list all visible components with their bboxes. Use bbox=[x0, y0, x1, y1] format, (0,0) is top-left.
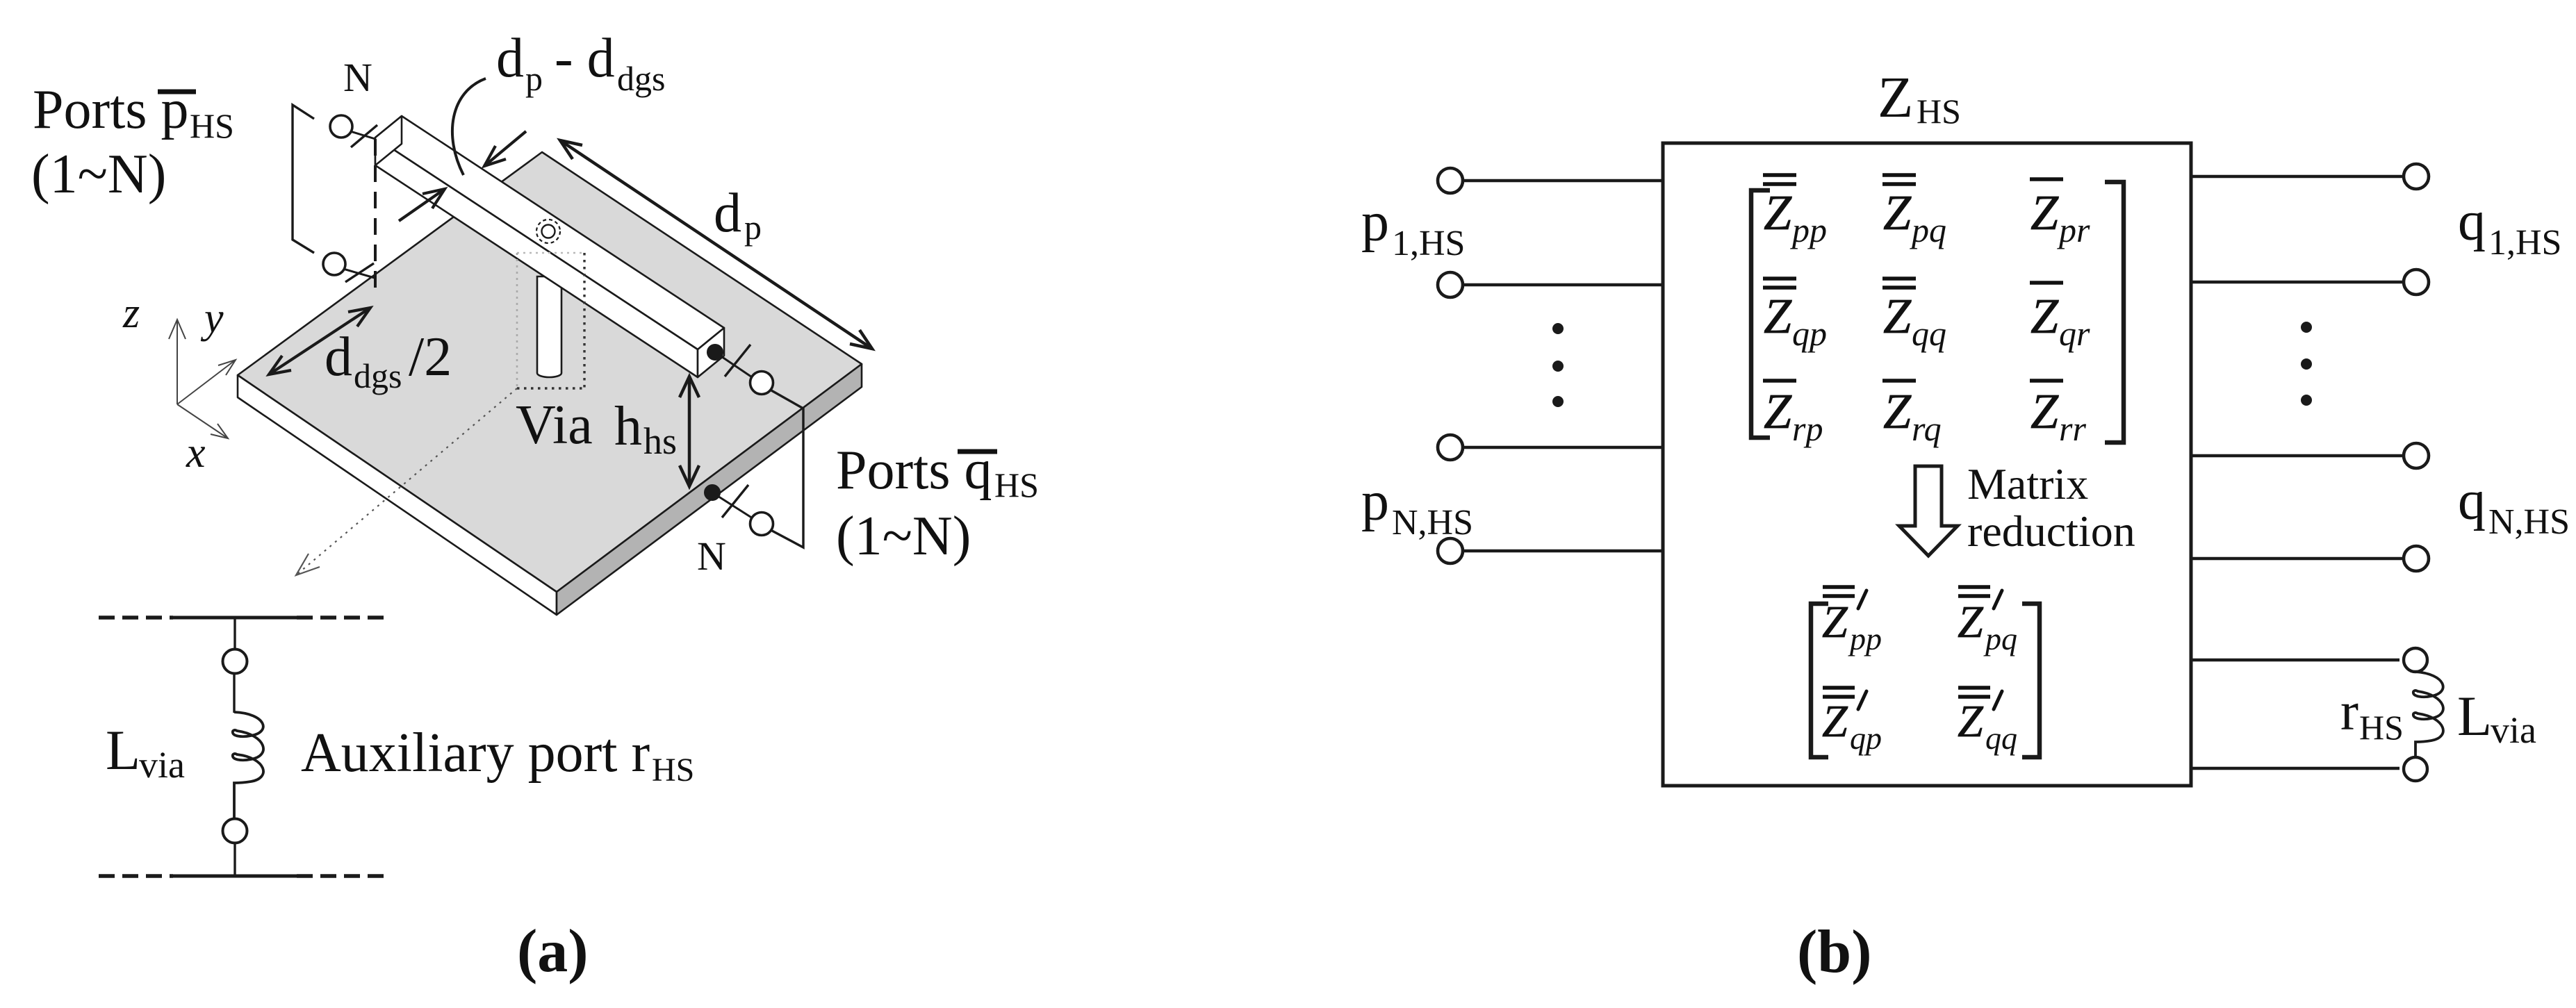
network box ZHS bbox=[1663, 143, 2191, 786]
svg-text:d: d bbox=[714, 183, 741, 244]
svg-text:Z: Z bbox=[1764, 288, 1792, 344]
wire p1a bbox=[1463, 179, 1663, 183]
label ZHS bbox=[1878, 65, 1961, 131]
dots left bbox=[1552, 323, 1564, 407]
svg-text:d: d bbox=[325, 327, 352, 388]
svg-text:d: d bbox=[496, 28, 524, 89]
wire p1b bbox=[1463, 283, 1663, 287]
svg-text:Z: Z bbox=[1883, 185, 1912, 240]
svg-text:Auxiliary port r: Auxiliary port r bbox=[301, 722, 650, 784]
svg-text:rq: rq bbox=[1912, 409, 1942, 448]
svg-text:y: y bbox=[200, 295, 224, 342]
port p circle 1 bbox=[330, 115, 377, 147]
dashed projection line at strip left end bbox=[374, 139, 377, 288]
wire pNa bbox=[1463, 446, 1663, 449]
curved leader for dp-ddgs bbox=[452, 79, 486, 175]
Z'pp bbox=[1822, 587, 1882, 656]
wire qNa bbox=[2191, 454, 2404, 458]
ports p bracket bbox=[293, 105, 314, 253]
wire qNb bbox=[2191, 557, 2404, 561]
aux port bottom circle bbox=[223, 819, 247, 843]
label dp - ddgs bbox=[496, 28, 665, 98]
svg-text:qr: qr bbox=[2059, 314, 2090, 353]
svg-text:h: h bbox=[614, 396, 642, 457]
terminal qNa bbox=[2404, 443, 2429, 468]
svg-text:pq: pq bbox=[1910, 210, 1946, 249]
svg-text:HS: HS bbox=[2359, 708, 2404, 747]
svg-text:Z: Z bbox=[1822, 696, 1848, 747]
wire port to inductor bbox=[233, 674, 235, 713]
label q1,HS bbox=[2458, 191, 2561, 263]
label L_via (panel a) bbox=[106, 718, 185, 786]
label Ports pHS bbox=[31, 79, 234, 205]
arrow onto strip (down-left) bbox=[484, 131, 526, 166]
aux port top circle bbox=[223, 650, 247, 674]
svg-text:Z: Z bbox=[1764, 185, 1792, 240]
terminal q1a bbox=[2404, 164, 2429, 189]
Zpq bbox=[1882, 175, 1946, 249]
terminal qNb bbox=[2404, 546, 2429, 571]
label p1,HS bbox=[1361, 192, 1465, 263]
auxiliary port projection dash-dot arrow bbox=[296, 388, 517, 575]
port q dot 1 (on strip end) bbox=[707, 345, 761, 383]
svg-text:pr: pr bbox=[2057, 210, 2090, 249]
wire rHS top bbox=[2191, 659, 2399, 662]
label pN,HS bbox=[1361, 471, 1473, 543]
svg-text:p: p bbox=[744, 208, 762, 247]
terminal p1a bbox=[1438, 168, 1463, 193]
wire pNb bbox=[1463, 550, 1663, 553]
svg-text:N,HS: N,HS bbox=[1392, 503, 1473, 543]
wire q1a bbox=[2191, 175, 2404, 179]
via bbox=[537, 276, 561, 377]
terminal rHS top bbox=[2404, 648, 2427, 672]
Z'pq bbox=[1958, 587, 2017, 656]
wire q1b bbox=[2191, 281, 2404, 284]
Zrp bbox=[1763, 381, 1823, 448]
svg-text:p: p bbox=[525, 59, 543, 98]
svg-text:(1~N): (1~N) bbox=[31, 144, 166, 205]
svg-text:L: L bbox=[2457, 684, 2492, 747]
svg-text:Z: Z bbox=[1958, 597, 1984, 647]
svg-text:qp: qp bbox=[1792, 314, 1827, 353]
svg-text:Z: Z bbox=[1958, 696, 1984, 747]
dimension arrow dp bbox=[560, 140, 872, 349]
svg-text:Z: Z bbox=[1883, 288, 1912, 344]
svg-text:1,HS: 1,HS bbox=[1392, 224, 1465, 263]
svg-text:Z: Z bbox=[2031, 288, 2059, 344]
svg-text:via: via bbox=[2491, 709, 2536, 751]
svg-text:N: N bbox=[343, 55, 372, 100]
svg-text:N: N bbox=[697, 534, 726, 579]
svg-text:dgs: dgs bbox=[617, 59, 665, 98]
matrix 3x3 left bracket bbox=[1751, 190, 1770, 438]
svg-text:Ports q: Ports q bbox=[836, 440, 992, 501]
svg-text:via: via bbox=[139, 744, 185, 786]
wire top to port bbox=[233, 618, 236, 649]
arrow onto strip (up-right) bbox=[399, 189, 445, 221]
Zpp bbox=[1763, 175, 1827, 249]
svg-text:pp: pp bbox=[1848, 621, 1882, 656]
inductor L_via (panel a) bbox=[233, 712, 263, 818]
Zrq bbox=[1882, 381, 1942, 448]
port q circle 2 bbox=[750, 513, 773, 536]
Z'qp bbox=[1822, 688, 1882, 756]
terminal p1b bbox=[1438, 272, 1463, 297]
svg-text:HS: HS bbox=[1917, 92, 1961, 131]
svg-text:q: q bbox=[2458, 191, 2486, 252]
svg-text:HS: HS bbox=[190, 106, 234, 145]
ground plane plate bbox=[238, 152, 862, 615]
wire rHS bottom bbox=[2191, 767, 2399, 770]
svg-text:hs: hs bbox=[643, 420, 677, 462]
svg-text:x: x bbox=[186, 429, 206, 477]
Z'qq bbox=[1958, 688, 2017, 756]
svg-text:/2: /2 bbox=[409, 327, 452, 388]
Zpr bbox=[2030, 179, 2090, 249]
terminal pNa bbox=[1438, 435, 1463, 460]
svg-text:Ports p: Ports p bbox=[33, 79, 189, 140]
svg-text:Z: Z bbox=[1822, 597, 1848, 647]
port p circle 2 bbox=[323, 253, 375, 282]
svg-text:dgs: dgs bbox=[354, 356, 402, 395]
svg-text:Z: Z bbox=[1764, 383, 1792, 439]
svg-text:qp: qp bbox=[1850, 720, 1882, 756]
matrix 2x2 right bracket bbox=[2022, 604, 2040, 757]
svg-text:p: p bbox=[1361, 192, 1389, 253]
via marker on strip bbox=[536, 220, 560, 243]
Zrr bbox=[2030, 381, 2086, 448]
svg-text:qq: qq bbox=[1985, 720, 2017, 756]
svg-text:Z: Z bbox=[2031, 185, 2059, 240]
inductor L_via (panel b) bbox=[2413, 672, 2443, 757]
svg-text:rp: rp bbox=[1792, 409, 1823, 448]
microstrip trace bbox=[375, 116, 724, 377]
svg-text:q: q bbox=[2458, 470, 2486, 531]
svg-text:qq: qq bbox=[1912, 314, 1946, 353]
label rHS bbox=[2340, 681, 2404, 747]
svg-text:Z: Z bbox=[1878, 65, 1913, 130]
dimension arrow ddgs/2 bbox=[269, 308, 370, 374]
ports q bracket bbox=[771, 390, 803, 547]
svg-text:- d: - d bbox=[555, 28, 615, 89]
label Auxiliary port rHS bbox=[301, 722, 694, 788]
svg-text:z: z bbox=[122, 290, 140, 337]
svg-text:(1~N): (1~N) bbox=[836, 506, 971, 567]
port q dot 2 (on plate edge) bbox=[705, 485, 761, 524]
svg-text:HS: HS bbox=[652, 752, 694, 788]
hidden via outline dotted box bbox=[517, 253, 584, 388]
matrix 3x3 right bracket bbox=[2105, 182, 2124, 443]
terminal rHS bottom bbox=[2404, 757, 2427, 781]
label qN,HS bbox=[2458, 470, 2570, 542]
port q circle 1 bbox=[750, 372, 773, 395]
svg-text:(a): (a) bbox=[517, 918, 589, 985]
label Lvia (panel b) bbox=[2457, 684, 2536, 751]
label Ports qHS bbox=[836, 440, 1039, 567]
svg-text:Via: Via bbox=[516, 395, 593, 456]
bottom rail of auxiliary circuit bbox=[99, 874, 391, 878]
svg-text:pp: pp bbox=[1790, 210, 1827, 249]
wire port to bottom rail bbox=[233, 843, 236, 876]
Zqq bbox=[1882, 279, 1946, 353]
svg-text:rr: rr bbox=[2059, 409, 2086, 448]
matrix reduction hollow arrow bbox=[1899, 466, 1958, 556]
svg-text:Matrix: Matrix bbox=[1967, 459, 2088, 509]
svg-text:Z: Z bbox=[2031, 383, 2059, 439]
svg-text:Z: Z bbox=[1883, 383, 1912, 439]
dots right bbox=[2301, 322, 2312, 406]
terminal pNb bbox=[1438, 538, 1463, 563]
coordinate axes bbox=[169, 320, 236, 438]
svg-text:p: p bbox=[1361, 471, 1389, 532]
svg-text:N,HS: N,HS bbox=[2488, 502, 2570, 542]
svg-text:(b): (b) bbox=[1797, 918, 1872, 986]
matrix 2x2 left bracket bbox=[1811, 604, 1828, 757]
svg-text:reduction: reduction bbox=[1967, 506, 2135, 556]
top rail of auxiliary circuit bbox=[99, 615, 391, 620]
svg-text:pq: pq bbox=[1983, 621, 2017, 656]
svg-text:HS: HS bbox=[994, 465, 1039, 504]
Zqp bbox=[1763, 279, 1827, 353]
Zqr bbox=[2030, 283, 2090, 353]
svg-text:r: r bbox=[2340, 681, 2358, 741]
dimension arrow h_hs bbox=[680, 377, 699, 486]
svg-text:L: L bbox=[106, 718, 140, 782]
terminal q1b bbox=[2404, 270, 2429, 295]
svg-text:1,HS: 1,HS bbox=[2488, 223, 2561, 263]
